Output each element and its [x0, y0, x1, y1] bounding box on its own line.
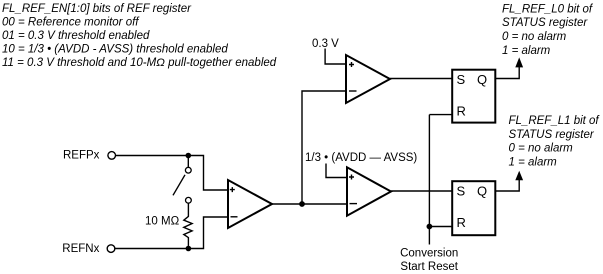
svg-text:1 = alarm: 1 = alarm: [502, 45, 551, 57]
svg-text:11 = 0.3 V threshold and 10-MΩ: 11 = 0.3 V threshold and 10-MΩ pull-toge…: [2, 57, 277, 69]
svg-text:STATUS register: STATUS register: [502, 17, 588, 29]
op-amp A3 bottom comparator: [347, 167, 391, 215]
svg-text:REFNx: REFNx: [62, 243, 99, 255]
wire REFPx to plus-input corner: [116, 156, 228, 191]
wire 0.3V to A2 plus input: [325, 49, 346, 65]
svg-text:S: S: [457, 184, 466, 199]
svg-text:REFPx: REFPx: [63, 150, 100, 162]
wire conversion start reset vertical: [428, 115, 430, 245]
svg-text:0.3 V: 0.3 V: [312, 38, 339, 50]
svg-text:STATUS register: STATUS register: [509, 129, 595, 141]
op-amp A2 plus sign: [349, 62, 354, 67]
svg-text:0 = no alarm: 0 = no alarm: [502, 31, 567, 43]
node A1 output junction: [299, 201, 305, 207]
wire A1 output up to A2 minus input: [302, 91, 346, 204]
terminal REFPx circle: [108, 152, 116, 160]
node reset junction: [427, 224, 433, 230]
op-amp A2 top comparator: [346, 55, 390, 103]
svg-text:1 = alarm: 1 = alarm: [509, 157, 558, 169]
svg-text:10 MΩ: 10 MΩ: [145, 216, 180, 228]
resistor R1 body: [184, 203, 192, 248]
svg-text:R: R: [457, 103, 466, 118]
svg-text:10 = 1/3 • (AVDD - AVSS) thres: 10 = 1/3 • (AVDD - AVSS) threshold enabl…: [2, 44, 228, 56]
switch S1 top contact: [185, 167, 191, 173]
svg-text:FL_REF_EN[1:0] bits of REF reg: FL_REF_EN[1:0] bits of REF register: [2, 3, 192, 15]
op-amp A3 plus sign: [349, 175, 354, 180]
wire A2 output to latch U1 S input: [390, 78, 452, 80]
op-amp A1 main comparator: [228, 180, 272, 228]
op-amp A1 minus sign: [231, 216, 238, 218]
svg-text:S: S: [457, 72, 466, 87]
wire 1/3 threshold to A3 plus input: [326, 164, 347, 178]
svg-text:FL_REF_L0 bit of: FL_REF_L0 bit of: [502, 4, 594, 16]
svg-text:0 = no alarm: 0 = no alarm: [509, 143, 574, 155]
switch S1 bottom contact: [186, 197, 192, 203]
wire REFPx junction to switch: [187, 156, 189, 167]
svg-text:Start Reset: Start Reset: [400, 261, 458, 273]
latch U1 box: [452, 70, 495, 123]
op-amp A1 plus sign: [230, 187, 235, 192]
latch U2 box: [452, 181, 495, 235]
wire latch U1 R input: [429, 114, 452, 116]
arrow FL_REF_L0 output: [515, 57, 523, 67]
wire REFNx to minus-input corner: [115, 217, 228, 249]
wire A1 output to A3 minus input: [272, 203, 347, 205]
svg-text:00 = Reference monitor off: 00 = Reference monitor off: [2, 16, 140, 28]
svg-text:R: R: [457, 215, 466, 230]
wire A3 output to latch U2 S input: [391, 190, 452, 192]
node REFPx junction: [186, 153, 192, 159]
svg-text:Conversion: Conversion: [400, 248, 458, 260]
op-amp A3 minus sign: [350, 203, 358, 205]
wire latch U1 Q output: [495, 65, 519, 79]
svg-text:Q: Q: [477, 184, 487, 199]
op-amp A2 minus sign: [349, 90, 357, 92]
node REFNx junction: [186, 246, 192, 252]
svg-text:01 = 0.3 V threshold enabled: 01 = 0.3 V threshold enabled: [2, 30, 150, 42]
terminal REFNx circle: [107, 245, 115, 253]
svg-text:Q: Q: [477, 72, 487, 87]
wire latch U2 R input: [429, 226, 452, 228]
switch S1 blade: [173, 175, 185, 196]
svg-text:FL_REF_L1 bit of: FL_REF_L1 bit of: [509, 115, 601, 127]
wire latch U2 Q output: [495, 179, 519, 191]
arrow FL_REF_L1 output: [515, 171, 523, 181]
svg-text:1/3 • (AVDD — AVSS): 1/3 • (AVDD — AVSS): [305, 152, 417, 164]
